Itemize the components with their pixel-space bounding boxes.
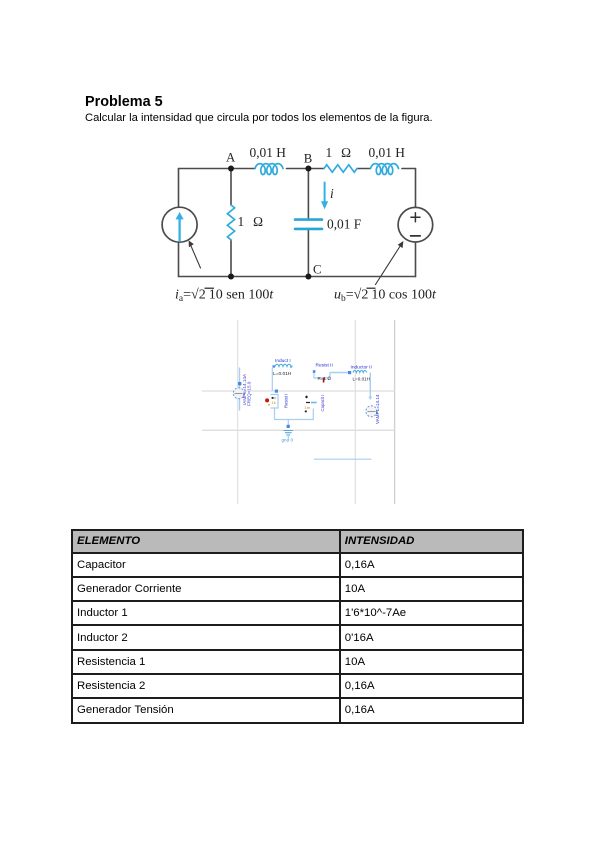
svg-text:Resist I: Resist I [284, 394, 289, 408]
inductor L2 0,01 H [371, 164, 399, 175]
sim voltage source dashed circle [366, 406, 377, 417]
wire right vertical [415, 169, 417, 277]
svg-text:1m: 1m [305, 405, 311, 410]
svg-text:R=1 Ω: R=1 Ω [318, 376, 332, 381]
svg-text:gnd 0: gnd 0 [282, 438, 294, 443]
sim stray wire bottom [314, 458, 371, 460]
svg-text:◆: ◆ [305, 394, 309, 399]
sim wire left source vertical [239, 368, 241, 411]
wire top rail [179, 168, 416, 170]
minus sign [411, 235, 421, 237]
grid vertical lines [238, 320, 356, 504]
wire branch B vertical [307, 169, 309, 277]
sqrt overline ub [367, 287, 376, 289]
plus sign [411, 213, 420, 222]
sim ground symbol [287, 425, 290, 428]
current source ia circle [162, 207, 197, 242]
svg-text:L=0.01H: L=0.01H [353, 377, 371, 382]
voltage source ub circle [398, 207, 433, 242]
sim L1 coil [275, 364, 291, 366]
sim R1 red probe dot [265, 398, 269, 402]
wire branch A vertical [230, 169, 232, 277]
current i arrow [321, 183, 328, 210]
sim wire R1 bottom to ground [275, 408, 314, 426]
pointer arrow to current source [189, 240, 201, 268]
pointer arrow to voltage source [376, 241, 404, 285]
svg-text:Capacit I: Capacit I [320, 395, 325, 412]
sim wire from L1 down [271, 368, 273, 391]
resistor R2 1ohm horizontal [324, 165, 357, 172]
sim L2 coil [353, 371, 367, 373]
title [85, 94, 163, 110]
node B [305, 166, 311, 172]
inductor L1 0,01 H [255, 164, 283, 175]
sim resistor R1 box [271, 395, 279, 409]
node A bottom [228, 274, 234, 280]
sim source node dot [238, 382, 241, 385]
sim current source dashed circle [233, 388, 244, 399]
resistor R1 1ohm vertical [227, 205, 234, 240]
svg-text:Inductor II: Inductor II [351, 365, 372, 371]
svg-text:FREQ=15.9: FREQ=15.9 [247, 381, 252, 406]
svg-text:VAMPL=14.14: VAMPL=14.14 [375, 394, 380, 424]
wire bottom rail [179, 276, 416, 278]
sim wire L2 down to source [369, 373, 371, 398]
sqrt overline ia [205, 287, 215, 289]
grid horizontal lines [202, 391, 395, 430]
current source arrow [176, 212, 184, 241]
svg-text:L=0.01H: L=0.01H [273, 371, 292, 377]
wire left vertical [178, 169, 180, 277]
results table [71, 529, 524, 724]
sim R2 wire box [314, 372, 330, 379]
svg-text:Resist II: Resist II [316, 363, 333, 369]
svg-text:1k: 1k [272, 400, 276, 405]
node C [305, 274, 311, 280]
svg-text:Induct I: Induct I [275, 358, 291, 364]
capacitor C 0,01 F plates [295, 220, 322, 229]
sim wire R2 to L2 [330, 372, 349, 374]
node A [228, 166, 234, 172]
